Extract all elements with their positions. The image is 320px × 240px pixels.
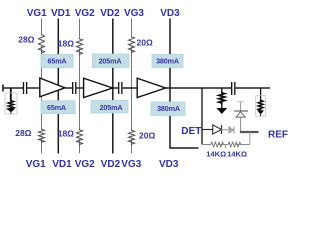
svg-text:14KΩ: 14KΩ xyxy=(227,150,247,159)
resistor R3 top 20ohm xyxy=(129,36,135,53)
wire VD3 bias line with bottom elbow xyxy=(170,19,199,149)
svg-text:28Ω: 28Ω xyxy=(15,128,31,138)
wire right shunt stub xyxy=(260,88,262,100)
wire coil to ground xyxy=(221,101,223,108)
wire A1 to C1 xyxy=(65,87,73,89)
resistor R1 top 28ohm xyxy=(39,34,45,54)
inductor mid shunt coil xyxy=(219,92,225,103)
ground input shunt xyxy=(6,108,15,114)
input terminal bar xyxy=(2,85,4,92)
resistor R5 14Kohm xyxy=(228,142,242,147)
resistor R2 bottom 18ohm xyxy=(77,129,83,145)
svg-text:REF: REF xyxy=(268,130,288,141)
op-amp A1 (stage 1) xyxy=(40,78,65,97)
capacitor C1 xyxy=(73,82,76,94)
svg-text:VG2: VG2 xyxy=(75,8,95,19)
wire A3 output to C3 xyxy=(166,87,232,89)
svg-text:VD3: VD3 xyxy=(159,159,179,170)
capacitor C2 xyxy=(119,82,122,94)
svg-text:18Ω: 18Ω xyxy=(58,39,74,49)
component box input shunt xyxy=(5,93,17,114)
diode D1 (series detector diode) xyxy=(213,125,222,134)
svg-text:20Ω: 20Ω xyxy=(137,38,153,48)
current box 205mA (bottom) xyxy=(91,101,128,114)
wire C1 to A2 xyxy=(76,87,84,89)
wire REF node down to resistor row xyxy=(249,132,251,145)
wire VG2 bias line (vertical) xyxy=(79,19,81,154)
wire VD1 bias line (vertical) xyxy=(57,19,59,154)
svg-text:VG3: VG3 xyxy=(124,8,144,19)
svg-text:VD2: VD2 xyxy=(100,8,120,19)
wire A2 to C2 xyxy=(113,87,119,89)
svg-text:205mA: 205mA xyxy=(99,57,122,66)
svg-text:VG3: VG3 xyxy=(121,159,141,170)
wire input shunt stub xyxy=(10,88,12,101)
resistor R4 14Kohm xyxy=(210,142,224,147)
svg-text:VD1: VD1 xyxy=(52,159,72,170)
svg-text:28Ω: 28Ω xyxy=(18,35,34,45)
svg-text:65mA: 65mA xyxy=(48,57,67,66)
wire D1 to D2 xyxy=(222,129,229,131)
svg-text:VG2: VG2 xyxy=(75,159,95,170)
wire VG3 bias line (vertical) xyxy=(131,19,133,154)
svg-text:14KΩ: 14KΩ xyxy=(206,150,226,159)
resistor R1 bottom 28ohm xyxy=(39,129,45,144)
current box 380mA (top) xyxy=(152,55,183,68)
svg-text:20Ω: 20Ω xyxy=(139,131,155,141)
op-amp A3 (stage 3) xyxy=(137,78,165,97)
svg-text:VD1: VD1 xyxy=(51,8,71,19)
current box 65mA (bottom) xyxy=(41,101,75,114)
capacitor C3 (output) xyxy=(232,82,235,95)
wire REF stub (thick) xyxy=(240,131,259,133)
inductor right shunt coil xyxy=(258,100,263,111)
current box 65mA (top) xyxy=(41,55,73,68)
wire VD2 bias line (vertical) xyxy=(112,19,114,154)
current box 380mA (bottom) xyxy=(151,102,185,116)
svg-text:VG1: VG1 xyxy=(27,8,47,19)
svg-text:18Ω: 18Ω xyxy=(58,129,74,139)
op-amp A2 (stage 2) xyxy=(84,78,113,97)
svg-text:VD3: VD3 xyxy=(160,8,180,19)
svg-text:380mA: 380mA xyxy=(157,104,180,113)
wire C2 to A3 xyxy=(122,87,137,89)
svg-text:DET: DET xyxy=(181,126,201,137)
resistor R2 top 18ohm xyxy=(77,38,83,55)
wire VG1 bias line (vertical) xyxy=(41,19,43,154)
wire DET to D1 xyxy=(202,129,213,131)
ground right shunt xyxy=(257,109,264,117)
svg-text:205mA: 205mA xyxy=(100,103,123,112)
diode D3 (vertical reference diode) xyxy=(234,102,248,117)
svg-text:VD2: VD2 xyxy=(101,159,121,170)
component box right shunt xyxy=(256,96,266,117)
capacitor C0 (input) xyxy=(24,82,27,94)
wire D3 to REF node xyxy=(240,117,242,132)
wire between R4 R5 with stub xyxy=(219,145,228,149)
wire C3 to output end xyxy=(235,87,270,89)
svg-text:380mA: 380mA xyxy=(156,57,179,66)
wire mid shunt stub xyxy=(221,88,223,93)
diode D2 (gray diode) xyxy=(229,127,234,134)
wire resistor row right xyxy=(236,144,250,146)
inductor input shunt coil xyxy=(8,100,13,110)
wire C0 to A1 xyxy=(27,87,40,89)
wire resistor row left xyxy=(202,144,210,146)
wire DET rail (vertical) xyxy=(201,88,203,145)
resistor R3 bottom 20ohm xyxy=(129,130,135,145)
wire RF input xyxy=(2,87,23,89)
svg-text:65mA: 65mA xyxy=(47,103,66,112)
svg-text:VG1: VG1 xyxy=(26,159,46,170)
current box 205mA (top) xyxy=(93,54,130,68)
ground mid (large arrow) xyxy=(216,108,227,114)
